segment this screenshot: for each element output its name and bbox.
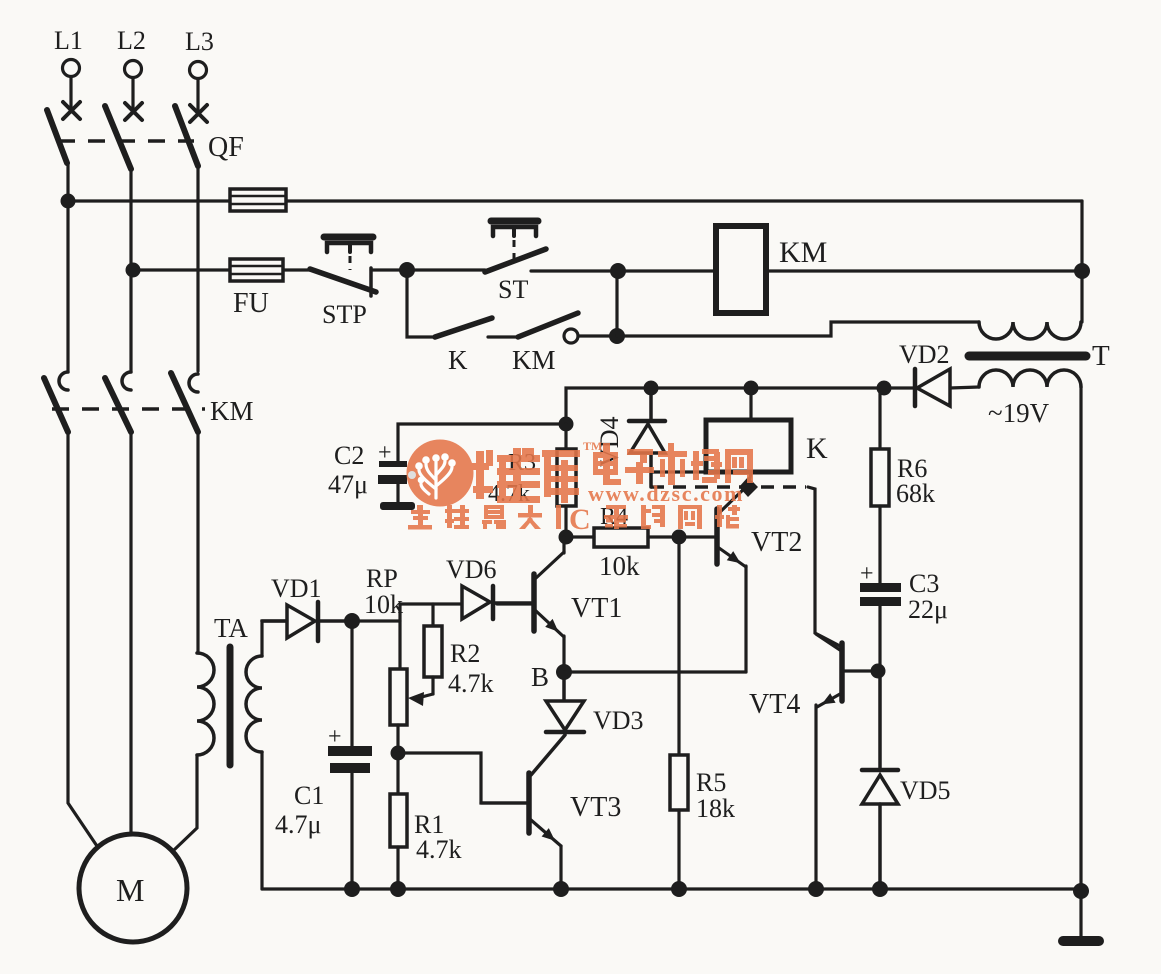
svg-text:K: K — [806, 432, 828, 465]
fuse FU1 — [230, 189, 286, 211]
svg-text:TM: TM — [583, 439, 602, 453]
transformer TA primary — [197, 653, 214, 755]
svg-text:C2: C2 — [334, 441, 364, 470]
wire KM aux to node D — [578, 334, 617, 337]
wire KM coil right — [766, 269, 1082, 272]
svg-text:R2: R2 — [450, 639, 480, 668]
node VD4 top — [644, 381, 659, 396]
node C2 tap — [559, 417, 574, 432]
svg-text:VT2: VT2 — [751, 527, 802, 558]
watermark — [407, 439, 754, 536]
diode VD3 — [531, 672, 584, 775]
dashed link K — [651, 485, 806, 489]
junction arrow — [739, 477, 758, 497]
svg-text:C: C — [569, 503, 591, 536]
svg-text:+: + — [378, 440, 392, 466]
wire node B line — [564, 670, 746, 673]
svg-text:QF: QF — [208, 132, 244, 163]
terminal L2 — [125, 61, 143, 121]
coil KM — [716, 226, 766, 313]
svg-text:68k: 68k — [896, 479, 935, 508]
relay K coil — [749, 388, 752, 420]
wire to VD6 — [400, 602, 462, 605]
node R4 left — [559, 530, 574, 545]
svg-text:4.7k: 4.7k — [416, 835, 462, 864]
transformer T secondary — [979, 370, 1081, 387]
resistor R4 — [566, 528, 679, 547]
breaker QF pole 2 — [105, 106, 131, 169]
terminal L1 — [63, 60, 81, 120]
svg-text:~19V: ~19V — [988, 398, 1050, 428]
wire D to transformer primary — [617, 322, 979, 336]
wire A to ST — [407, 268, 485, 271]
wire phase C vertical — [196, 166, 199, 371]
watermark logo circle — [407, 440, 474, 507]
wire TA secondary bottom — [260, 752, 263, 889]
svg-text:L1: L1 — [54, 26, 83, 55]
svg-text:VD3: VD3 — [593, 706, 644, 735]
node R4 right — [672, 530, 687, 545]
svg-text:VT1: VT1 — [571, 593, 622, 624]
svg-text:18k: 18k — [696, 794, 735, 823]
svg-text:B: B — [531, 662, 549, 692]
wire R5 riser — [677, 537, 680, 755]
svg-text:R5: R5 — [696, 768, 726, 797]
wire R2 top tap — [431, 604, 434, 626]
transistor VT1 — [497, 537, 564, 672]
resistor R5 — [670, 755, 688, 810]
contact KM aux blade — [518, 313, 578, 337]
wire secondary to VD2 — [950, 387, 979, 388]
node C — [610, 263, 626, 279]
svg-text:K: K — [448, 345, 468, 375]
svg-text:RP: RP — [366, 564, 398, 593]
wire secondary right rail — [1079, 387, 1082, 889]
breaker QF linkage dashed — [58, 139, 194, 143]
svg-text:M: M — [116, 872, 144, 908]
node E right — [1074, 263, 1090, 279]
svg-text:VD2: VD2 — [899, 340, 950, 369]
diode VD2 — [915, 369, 950, 406]
svg-text:L2: L2 — [117, 26, 146, 55]
svg-text:+: + — [860, 561, 874, 587]
svg-text:47μ: 47μ — [328, 470, 368, 499]
svg-text:TA: TA — [214, 613, 248, 643]
capacitor C1 — [328, 621, 372, 889]
node bus1-L1 — [61, 194, 76, 209]
watermark slogan — [408, 505, 740, 530]
ground symbol — [1079, 891, 1082, 936]
svg-text:T: T — [1092, 340, 1110, 372]
wire phase B vertical — [129, 169, 132, 371]
svg-text:10k: 10k — [599, 551, 640, 581]
node D — [609, 328, 625, 344]
contact K blade — [435, 318, 492, 337]
svg-text:4.7μ: 4.7μ — [275, 810, 321, 839]
wire bus L1 top — [68, 199, 1082, 202]
resistor R2 — [424, 626, 442, 677]
resistor R1 — [390, 753, 407, 889]
contactor KM main pole2 — [105, 372, 131, 432]
resistor R3 — [557, 424, 576, 537]
wire top right drop — [1080, 201, 1083, 322]
breaker QF pole 3 — [175, 106, 198, 166]
wire VD1 node right — [352, 619, 400, 622]
svg-text:VD1: VD1 — [271, 574, 322, 603]
transformer T core — [969, 352, 1086, 361]
svg-text:+: + — [328, 724, 342, 750]
transformer TA core — [227, 647, 234, 765]
wire VT4 collector riser — [808, 487, 840, 646]
watermark market chars — [593, 443, 753, 485]
transformer TA secondary — [246, 656, 262, 752]
pushbutton STP head — [324, 234, 373, 241]
diode VD5 — [862, 671, 898, 889]
svg-text:FU: FU — [233, 288, 269, 319]
wire RP to VT3 base — [398, 753, 527, 803]
wire ground bus — [262, 887, 1081, 890]
svg-text:www.dzsc.com: www.dzsc.com — [588, 481, 744, 506]
wire STP right — [371, 268, 407, 271]
wire C to KM coil — [618, 269, 716, 272]
svg-text:KM: KM — [779, 236, 827, 269]
terminal L3 — [190, 62, 208, 123]
transistor VT3 — [481, 773, 561, 889]
node RP bottom — [391, 746, 406, 761]
svg-text:10k: 10k — [364, 590, 403, 619]
diode VD1 — [262, 602, 352, 641]
wire TA secondary top — [262, 621, 287, 656]
wire phase A vertical — [66, 163, 69, 371]
capacitor C3 — [860, 583, 901, 671]
contactor KM main pole3 — [171, 373, 198, 432]
node VD1 out — [344, 613, 360, 629]
contactor KM main pole1 — [44, 372, 68, 432]
svg-text:C1: C1 — [294, 781, 324, 810]
wire motor phase C — [196, 431, 199, 653]
contactor KM linkage dashed — [52, 407, 205, 411]
wire ST to node C — [531, 269, 618, 272]
svg-text:KM: KM — [210, 396, 254, 426]
pushbutton ST stem dashed — [513, 240, 516, 262]
wire DC bus — [566, 388, 915, 424]
node R5 gnd — [671, 881, 687, 897]
contact KM aux seat — [564, 329, 578, 343]
wire motor phase C lower — [174, 755, 197, 850]
diode VD4 — [629, 388, 665, 487]
node VT4 gnd — [808, 881, 824, 897]
wire bus L2 second — [133, 268, 311, 271]
watermark brand chars — [471, 448, 580, 503]
node VT3 gnd — [553, 881, 569, 897]
svg-text:ST: ST — [498, 275, 528, 304]
svg-text:C3: C3 — [909, 569, 939, 598]
svg-text:STP: STP — [322, 300, 367, 329]
svg-text:VT4: VT4 — [749, 689, 800, 720]
node R1 gnd — [390, 881, 406, 897]
node VT4 base — [871, 664, 886, 679]
svg-text:VT3: VT3 — [570, 792, 621, 823]
wire motor phase B — [129, 430, 132, 834]
wire D up to C — [615, 271, 618, 336]
pushbutton STP stem dashed — [349, 256, 352, 270]
transistor VT2 — [679, 485, 748, 672]
svg-text:VD5: VD5 — [900, 776, 951, 805]
wire branch down from A — [407, 270, 435, 337]
node rail gnd — [1073, 883, 1089, 899]
pushbutton STP contact — [369, 268, 373, 296]
node B — [556, 664, 572, 680]
svg-text:KM: KM — [512, 345, 556, 375]
wire K mid — [488, 335, 518, 338]
svg-text:VD6: VD6 — [446, 555, 497, 584]
node VD5 gnd — [872, 881, 888, 897]
potentiometer RP — [390, 669, 433, 753]
capacitor C2 — [378, 424, 566, 502]
resistor R6 — [871, 388, 889, 583]
breaker QF pole 1 — [47, 110, 67, 163]
fuse FU2 — [230, 259, 283, 281]
transistor VT4 — [816, 634, 878, 889]
pushbutton ST head — [491, 218, 538, 225]
svg-text:4.7k: 4.7k — [448, 669, 494, 698]
svg-text:22μ: 22μ — [908, 595, 948, 624]
node bus2-L2 — [126, 263, 141, 278]
pushbutton ST blade — [485, 249, 546, 272]
wire K coil bottom stub — [749, 472, 751, 484]
transformer T primary — [979, 322, 1081, 339]
node C1 gnd — [344, 881, 360, 897]
motor M — [79, 834, 187, 942]
wire motor phase A — [68, 430, 101, 852]
svg-text:L3: L3 — [185, 27, 214, 56]
node R6 top — [877, 381, 892, 396]
node K top — [744, 381, 759, 396]
wire RP top riser — [398, 604, 401, 669]
wire VD4 to K coil bottom — [651, 470, 712, 473]
pushbutton STP blade — [310, 269, 376, 292]
ground C2 — [380, 502, 415, 510]
node A — [399, 262, 415, 278]
diode VD6 — [462, 586, 532, 619]
